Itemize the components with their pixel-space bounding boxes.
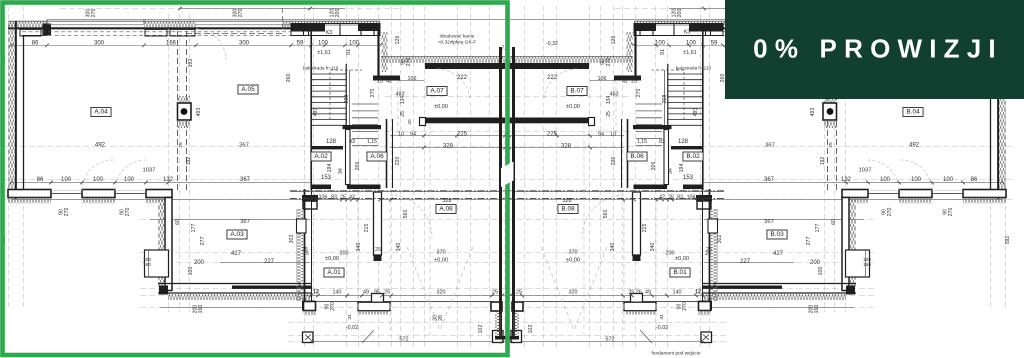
top exterior wall of unit A (634, 20, 1006, 22)
entry steps of unit A (631, 294, 643, 303)
svg-text:134: 134 (400, 96, 406, 105)
stair treads upper flight (668, 73, 703, 75)
svg-text:106: 106 (598, 76, 607, 82)
svg-text:128: 128 (326, 139, 337, 145)
driveway dashed guides below garage (583, 124, 585, 336)
svg-text:1,15: 1,15 (367, 139, 377, 145)
svg-text:367: 367 (765, 143, 775, 149)
svg-text:49: 49 (363, 290, 369, 296)
bottom wall of room A.04 with windows (963, 190, 1006, 198)
party wall between units (512, 47, 515, 339)
svg-text:200: 200 (340, 251, 349, 257)
svg-text:302: 302 (289, 235, 295, 244)
svg-text:106: 106 (687, 195, 696, 201)
svg-text:±1,61: ±1,61 (683, 50, 696, 56)
svg-text:±0,00: ±0,00 (566, 104, 580, 110)
svg-text:200: 200 (810, 260, 821, 266)
left exterior wall of unit A (999, 22, 1006, 200)
svg-text:A.02: A.02 (314, 153, 328, 160)
svg-text:270: 270 (330, 302, 336, 311)
garage A.07 lower wall (509, 118, 589, 124)
window on A.01 left wall (708, 219, 718, 233)
svg-text:493: 493 (693, 108, 699, 117)
svg-text:0% PROWIZJI: 0% PROWIZJI (753, 34, 1003, 64)
svg-text:42: 42 (622, 79, 628, 85)
svg-text:270: 270 (887, 208, 893, 217)
svg-text:200: 200 (666, 251, 675, 257)
svg-text:270: 270 (682, 302, 688, 311)
svg-text:25: 25 (377, 79, 383, 85)
svg-text:100: 100 (61, 177, 72, 183)
inner-face dashed lines of top wall (723, 31, 992, 33)
svg-text:227: 227 (740, 259, 751, 265)
svg-text:B.02: B.02 (686, 153, 700, 160)
svg-text:102: 102 (528, 325, 534, 334)
svg-text:340: 340 (610, 243, 616, 252)
svg-text:25: 25 (302, 247, 308, 253)
wall between A.04 and A.03 (165, 198, 172, 291)
svg-text:270: 270 (636, 89, 642, 98)
svg-text:25: 25 (828, 142, 834, 148)
svg-text:300: 300 (239, 40, 250, 46)
svg-text:60: 60 (831, 219, 837, 225)
svg-text:±0,00: ±0,00 (566, 258, 580, 264)
svg-text:100: 100 (93, 177, 104, 183)
svg-text:328: 328 (443, 198, 452, 204)
room label A.05 (238, 85, 258, 94)
svg-text:91: 91 (660, 49, 666, 55)
svg-text:177: 177 (815, 224, 821, 233)
svg-text:160: 160 (143, 262, 151, 268)
svg-text:340: 340 (650, 243, 656, 252)
svg-text:1037: 1037 (143, 168, 156, 174)
svg-text:94: 94 (598, 132, 604, 138)
entry steps of unit A (372, 294, 384, 303)
svg-text:25: 25 (492, 290, 498, 296)
leader line to fundament note (640, 330, 652, 343)
svg-text:49: 49 (645, 290, 651, 296)
svg-text:302: 302 (717, 235, 723, 244)
window on A.01 left wall (297, 219, 307, 233)
construction grid lines (1005, 6, 1007, 310)
svg-text:59: 59 (711, 40, 718, 46)
svg-text:270: 270 (406, 58, 412, 67)
svg-text:±0,00: ±0,00 (325, 256, 339, 262)
svg-text:328: 328 (561, 144, 572, 150)
svg-text:208: 208 (344, 95, 350, 104)
svg-text:K3: K3 (326, 30, 332, 36)
svg-text:10: 10 (610, 132, 616, 138)
svg-text:100: 100 (188, 267, 194, 276)
svg-text:126: 126 (611, 36, 617, 45)
svg-text:100: 100 (880, 177, 891, 183)
svg-text:94: 94 (668, 168, 674, 174)
svg-text:25,26: 25,26 (628, 290, 642, 296)
svg-text:±1,61: ±1,61 (317, 50, 330, 56)
svg-text:260: 260 (286, 74, 292, 83)
svg-text:A.03: A.03 (230, 231, 244, 238)
svg-text:-0,32: -0,32 (546, 41, 558, 47)
svg-text:34: 34 (659, 314, 665, 320)
svg-text:340: 340 (396, 243, 402, 252)
svg-text:208: 208 (662, 95, 668, 104)
svg-text:140: 140 (333, 290, 342, 296)
column footing below A.01 pier (303, 332, 314, 343)
inner-face dashed lines of top wall (22, 31, 291, 33)
svg-text:227: 227 (264, 259, 275, 265)
svg-text:572: 572 (399, 337, 408, 343)
svg-text:225: 225 (547, 132, 558, 138)
svg-text:25: 25 (606, 111, 612, 117)
room label A.04 (91, 108, 111, 117)
garage A.07 upper wall (509, 57, 633, 63)
stair up-arrow dashed (330, 70, 362, 120)
svg-text:40: 40 (407, 119, 412, 125)
svg-text:153: 153 (683, 175, 694, 181)
svg-text:106: 106 (319, 195, 328, 201)
left wall of A.01 (709, 189, 711, 301)
svg-text:220: 220 (611, 157, 617, 166)
svg-text:≈0,32złpłytę GK-F: ≈0,32złpłytę GK-F (438, 40, 476, 46)
svg-text:25: 25 (340, 195, 346, 201)
svg-text:42: 42 (349, 195, 355, 201)
leader line to fundament note (362, 330, 374, 343)
svg-text:A.06: A.06 (370, 153, 384, 160)
svg-text:300: 300 (94, 40, 105, 46)
dimension lines (634, 44, 1003, 46)
svg-text:±0,00: ±0,00 (434, 104, 448, 110)
svg-text:A.01: A.01 (327, 269, 341, 276)
svg-text:A.05: A.05 (241, 86, 255, 93)
svg-text:367: 367 (764, 177, 775, 183)
svg-text:100: 100 (318, 40, 329, 46)
door swing arcs (82, 160, 113, 190)
svg-text:370: 370 (436, 250, 445, 256)
svg-text:493: 493 (810, 108, 816, 117)
svg-text:560: 560 (403, 210, 409, 219)
banner mask: dark green promo banner (725, 0, 1024, 99)
svg-text:328: 328 (563, 198, 572, 204)
door swing arcs (901, 160, 932, 190)
wall between A.04 and A.03 (842, 198, 849, 291)
svg-text:94: 94 (410, 132, 416, 138)
svg-text:28: 28 (438, 315, 444, 321)
party wall between units (499, 47, 502, 339)
svg-text:balustrada h=110: balustrada h=110 (676, 66, 712, 71)
svg-text:86: 86 (971, 177, 978, 183)
svg-text:83: 83 (349, 139, 355, 145)
stair mid landing wall (633, 125, 672, 129)
svg-text:25: 25 (631, 79, 637, 85)
svg-text:25: 25 (178, 142, 184, 148)
wall below stairs (A.02 bottom) (683, 185, 703, 190)
column footing below A.01 pier (701, 332, 712, 343)
room label A.03 and dims (227, 230, 247, 239)
svg-text:270: 270 (370, 89, 376, 98)
svg-text:1037: 1037 (859, 168, 872, 174)
svg-text:160: 160 (863, 262, 871, 268)
svg-text:166: 166 (166, 40, 177, 46)
bottom wall of A.01 and A.08 with entry and window (522, 301, 700, 303)
svg-text:140: 140 (673, 290, 682, 296)
svg-text:493: 493 (196, 108, 202, 117)
svg-text:225: 225 (457, 132, 468, 138)
section cut dash-dot lines (507, 190, 724, 192)
chimney block on partition wall (824, 96, 836, 103)
svg-text:340: 340 (356, 243, 362, 252)
masonry boxes in wall piers (973, 29, 994, 36)
bottom wall of room A.03 (158, 283, 311, 285)
svg-text:102: 102 (478, 325, 484, 334)
svg-text:160: 160 (198, 305, 204, 314)
svg-text:12: 12 (313, 290, 319, 296)
construction grid lines (8, 6, 10, 310)
svg-text:B.08: B.08 (561, 206, 575, 213)
svg-text:134: 134 (606, 96, 612, 105)
window in A.03 left wall (145, 250, 169, 277)
svg-text:427: 427 (231, 251, 242, 257)
window in A.03 left wall (846, 250, 870, 277)
bottom wall of room A.03 (703, 283, 856, 285)
staircase block walls (310, 31, 312, 190)
masonry boxes in wall piers (20, 29, 41, 36)
svg-text:fundament pod wejście: fundament pod wejście (651, 351, 700, 357)
svg-text:220: 220 (395, 157, 401, 166)
svg-text:91: 91 (346, 49, 352, 55)
svg-text:270: 270 (606, 58, 612, 67)
svg-text:215: 215 (364, 224, 370, 233)
svg-text:42: 42 (659, 195, 665, 201)
svg-text:12: 12 (310, 195, 316, 201)
driveway dashed guides below garage (429, 124, 431, 336)
svg-text:86: 86 (37, 177, 44, 183)
svg-text:560: 560 (603, 210, 609, 219)
svg-text:320: 320 (569, 290, 578, 296)
dashed V guides in A.08 (407, 247, 440, 330)
svg-text:1,15: 1,15 (637, 139, 647, 145)
svg-text:277: 277 (200, 237, 206, 246)
stair lower treads (352, 103, 378, 105)
wall between A.01 and A.08 (633, 192, 641, 255)
garage A.07 lower wall (425, 118, 505, 124)
right wall piers of A.03 (302, 195, 318, 201)
svg-text:100: 100 (124, 177, 135, 183)
svg-text:367: 367 (239, 143, 249, 149)
svg-text:25: 25 (668, 195, 674, 201)
bottom wall of room A.04 with windows (8, 190, 51, 198)
svg-text:100: 100 (655, 40, 666, 46)
svg-text:328: 328 (443, 144, 454, 150)
svg-text:206: 206 (355, 162, 361, 171)
svg-text:270: 270 (238, 9, 244, 18)
top exterior wall of unit A (8, 20, 380, 22)
svg-text:59: 59 (297, 40, 304, 46)
svg-text:270: 270 (91, 9, 97, 18)
svg-text:132: 132 (163, 177, 174, 183)
svg-text:B.07: B.07 (570, 88, 584, 95)
dashed V guides in A.08 (574, 247, 607, 330)
svg-text:83: 83 (659, 139, 665, 145)
partition wall in A.05 dashed (177, 31, 179, 190)
svg-text:427: 427 (773, 251, 784, 257)
stair lower treads (636, 103, 662, 105)
wall below stairs (A.02 bottom) (311, 185, 331, 190)
staircase block walls (702, 31, 704, 190)
wall between A.01 and A.08 (374, 192, 382, 255)
svg-text:12: 12 (695, 290, 701, 296)
svg-text:A.08: A.08 (439, 206, 453, 213)
chimney block on partition wall (178, 96, 190, 103)
svg-text:K3: K3 (684, 30, 690, 36)
svg-text:balustrada h=110: balustrada h=110 (303, 66, 339, 71)
svg-text:200: 200 (194, 260, 205, 266)
svg-text:obudować kanie: obudować kanie (440, 34, 475, 40)
svg-text:34: 34 (347, 314, 353, 320)
svg-text:B.06: B.06 (630, 153, 644, 160)
stair mid landing wall (343, 125, 382, 129)
svg-text:100: 100 (943, 177, 954, 183)
svg-text:592: 592 (1005, 236, 1011, 245)
svg-text:25: 25 (384, 290, 390, 296)
floor plan geometry: unit B (mirrored) (507, 6, 1012, 350)
svg-text:492: 492 (95, 143, 106, 149)
svg-text:106: 106 (408, 76, 417, 82)
svg-text:270: 270 (64, 208, 70, 217)
svg-text:277: 277 (806, 237, 812, 246)
svg-text:270: 270 (125, 208, 131, 217)
svg-text:194: 194 (327, 164, 333, 173)
svg-text:200: 200 (335, 9, 341, 18)
divider wall between A.02 and A.06 (346, 130, 351, 185)
footing at party wall (493, 331, 504, 343)
svg-text:270: 270 (948, 208, 954, 217)
svg-text:A.04: A.04 (94, 109, 108, 116)
svg-text:12: 12 (698, 195, 704, 201)
svg-text:132: 132 (841, 177, 852, 183)
svg-text:100: 100 (686, 40, 697, 46)
svg-text:25: 25 (400, 111, 406, 117)
svg-text:320: 320 (437, 290, 446, 296)
stair treads upper flight (312, 73, 347, 75)
svg-text:100: 100 (911, 177, 922, 183)
svg-text:370: 370 (568, 250, 577, 256)
svg-text:A.07: A.07 (430, 88, 444, 95)
room A.01 and A.08 texts (324, 268, 344, 277)
left wall of A.01 (304, 189, 306, 301)
dimension lines (11, 44, 380, 46)
green frame around left half (3, 3, 508, 356)
svg-text:194: 194 (679, 164, 685, 173)
svg-text:367: 367 (764, 219, 774, 225)
svg-text:25: 25 (375, 247, 381, 253)
svg-text:42: 42 (386, 79, 392, 85)
svg-text:492: 492 (909, 143, 920, 149)
svg-text:206: 206 (651, 162, 657, 171)
svg-text:192: 192 (188, 59, 194, 68)
white diagonal slash across green frame edge (501, 162, 514, 188)
dimension tick marks (1001, 44, 1005, 48)
svg-text:367: 367 (240, 177, 251, 183)
divider wall between A.02 and A.06 (664, 130, 669, 185)
svg-text:572: 572 (605, 337, 614, 343)
floor plan geometry: unit A (left half) (2, 6, 507, 350)
garage A.07 upper wall (381, 57, 505, 63)
svg-text:160: 160 (814, 305, 820, 314)
svg-text:192: 192 (820, 157, 826, 166)
svg-text:B.01: B.01 (673, 269, 687, 276)
left exterior wall of unit A (8, 22, 15, 200)
svg-text:222: 222 (457, 75, 468, 81)
svg-text:153: 153 (321, 175, 332, 181)
svg-text:25: 25 (516, 290, 522, 296)
right wall piers of A.03 (696, 195, 712, 201)
svg-text:83: 83 (677, 195, 683, 201)
svg-text:493: 493 (313, 108, 319, 117)
svg-text:200: 200 (677, 9, 683, 18)
svg-text:83: 83 (331, 195, 337, 201)
svg-text:B.03: B.03 (770, 231, 784, 238)
stair up-arrow dashed (652, 70, 684, 120)
svg-text:126: 126 (395, 36, 401, 45)
svg-text:60: 60 (175, 219, 181, 225)
svg-text:10: 10 (398, 132, 404, 138)
svg-text:192: 192 (186, 157, 192, 166)
section cut dash-dot lines (290, 190, 507, 192)
footing at party wall (511, 331, 522, 343)
svg-text:±0,00: ±0,00 (675, 256, 689, 262)
svg-text:-0,02: -0,02 (346, 325, 358, 331)
svg-text:367: 367 (240, 219, 250, 225)
svg-text:128: 128 (678, 139, 689, 145)
svg-text:100: 100 (349, 40, 360, 46)
svg-text:215: 215 (642, 224, 648, 233)
svg-text:±0,00: ±0,00 (434, 258, 448, 264)
svg-text:222: 222 (547, 75, 558, 81)
svg-text:86: 86 (32, 40, 39, 46)
svg-text:100: 100 (818, 267, 824, 276)
dimension tick marks (9, 44, 13, 48)
svg-text:94: 94 (338, 168, 344, 174)
svg-text:B.04: B.04 (906, 109, 920, 116)
bottom wall of A.01 and A.08 with entry and window (314, 301, 492, 303)
svg-text:25: 25 (706, 247, 712, 253)
svg-text:-0,02: -0,02 (656, 325, 668, 331)
svg-text:177: 177 (191, 224, 197, 233)
svg-text:95: 95 (374, 290, 380, 296)
partition wall in A.05 dashed (836, 31, 838, 190)
